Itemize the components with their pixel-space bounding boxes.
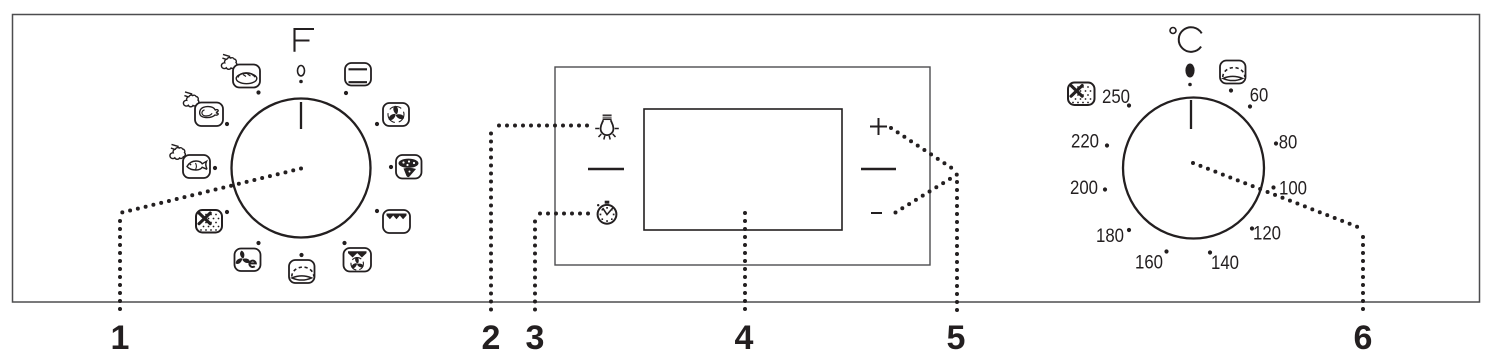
right knob body — [1123, 98, 1264, 239]
dot: bread position — [256, 90, 260, 94]
button line: set — [861, 168, 896, 171]
dot: dome position — [299, 253, 303, 257]
icon: keep warm dome (right) — [1220, 61, 1246, 84]
icon: defrost (right) — [1068, 83, 1095, 106]
dot 120 — [1250, 226, 1254, 230]
dot 180 — [1127, 228, 1131, 232]
dot: dome right position — [1229, 88, 1233, 92]
plus button — [870, 118, 887, 135]
left knob body — [232, 99, 371, 238]
svg-text:200: 200 — [1070, 177, 1098, 199]
leader line 1 — [120, 169, 301, 313]
svg-text:140: 140 — [1211, 252, 1239, 274]
dot 250 — [1127, 103, 1131, 107]
leader line 5 — [891, 128, 957, 317]
icon: turbo grill (function) — [344, 248, 372, 272]
degrees C label — [1170, 27, 1202, 52]
antialias helper — [0, 0, 1, 1]
callout numbers — [111, 319, 1373, 357]
dot 200 — [1103, 187, 1107, 191]
svg-text:6: 6 — [1354, 319, 1373, 357]
icon: pizza (function) — [396, 155, 422, 179]
F label — [295, 29, 315, 52]
svg-text:160: 160 — [1135, 252, 1163, 274]
dot: turbo grill position — [342, 241, 346, 245]
leader line 4 — [743, 213, 747, 317]
dot: fan position — [375, 122, 379, 126]
leader line 3 — [535, 214, 588, 313]
icon: keep warm dome (function) — [289, 260, 315, 283]
minus button — [871, 212, 882, 214]
svg-text:250: 250 — [1102, 86, 1130, 108]
0 position — [298, 66, 305, 84]
svg-text:80: 80 — [1279, 132, 1298, 154]
svg-text:120: 120 — [1253, 223, 1281, 245]
icon: timer clock — [597, 201, 616, 224]
button line: light — [588, 168, 624, 171]
dot: poultry position — [225, 122, 229, 126]
icon: steam poultry (function) — [183, 92, 223, 126]
icon: eco fan (function) — [235, 249, 261, 272]
svg-text:60: 60 — [1250, 85, 1269, 107]
leader line 6 — [1193, 163, 1363, 317]
middle control panel — [555, 67, 930, 265]
icon: conventional heat (function) — [345, 63, 371, 86]
leader line 2 — [491, 126, 587, 313]
icon: steam bread (function) — [221, 54, 260, 87]
svg-text:3: 3 — [526, 319, 545, 357]
svg-text:5: 5 — [947, 319, 966, 357]
dot: defrost position — [225, 210, 229, 214]
svg-text:1: 1 — [111, 319, 130, 357]
dot 140 — [1208, 250, 1212, 254]
temperature labels — [1070, 85, 1307, 275]
dot: fish position — [213, 166, 217, 170]
dot 220 — [1105, 143, 1109, 147]
icon: grill (function) — [383, 210, 410, 233]
dot 100 — [1271, 185, 1275, 189]
svg-text:2: 2 — [482, 319, 501, 357]
dot 160 — [1164, 249, 1168, 253]
dot 80 — [1274, 141, 1278, 145]
display window — [644, 109, 842, 230]
panel frame — [13, 15, 1480, 303]
dot 60 — [1248, 104, 1252, 108]
dot: pizza position — [389, 165, 393, 169]
0 position oval mark — [1185, 64, 1194, 87]
icon: oven light button — [595, 115, 619, 140]
dot: grill position — [375, 209, 379, 213]
dot: eco fan position — [256, 241, 260, 245]
svg-text:180: 180 — [1096, 225, 1124, 247]
svg-text:220: 220 — [1071, 131, 1099, 153]
svg-text:4: 4 — [735, 319, 754, 357]
dot: conventional position — [344, 91, 348, 95]
icon: fan (function) — [383, 103, 409, 126]
icon: steam fish (function) — [170, 144, 210, 178]
icon: defrost (function) — [196, 210, 222, 233]
